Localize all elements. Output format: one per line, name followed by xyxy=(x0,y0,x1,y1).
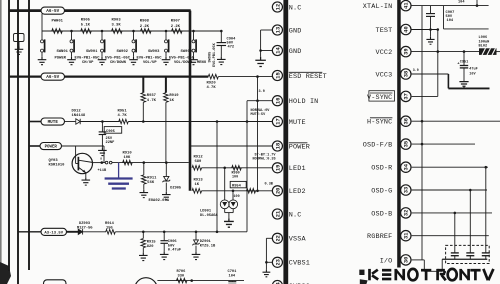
junction key row C904 xyxy=(220,30,223,33)
wire xtal jog down xyxy=(443,6,445,29)
wire C904 drop xyxy=(220,31,222,42)
svg-text:V-SYNC: V-SYNC xyxy=(367,94,392,102)
pin 40 IC902 xyxy=(401,24,411,34)
svg-text:I/O: I/O xyxy=(380,257,393,265)
svg-text:R954: R954 xyxy=(232,185,242,189)
watermark tick mark xyxy=(359,270,364,275)
wire gnd bracket xyxy=(260,30,262,57)
svg-text:KTZ5.1B: KTZ5.1B xyxy=(200,244,216,248)
svg-text:10K: 10K xyxy=(124,156,132,160)
wire C905 lower xyxy=(101,135,103,148)
ground C907 xyxy=(426,37,434,45)
wire vcc3 step xyxy=(447,74,449,88)
capacitor C701 xyxy=(231,280,233,283)
svg-text:N.C: N.C xyxy=(289,4,302,12)
svg-text:31: 31 xyxy=(404,232,410,238)
wire osdb row xyxy=(412,212,492,214)
resistor R908 xyxy=(141,29,152,34)
contact marks xyxy=(105,161,108,164)
pin 39 IC902 xyxy=(401,46,411,56)
svg-text:VCC3: VCC3 xyxy=(375,71,392,79)
ground chassis blue xyxy=(105,179,133,189)
svg-text:40: 40 xyxy=(404,26,410,32)
wire R920 to pin15 xyxy=(218,76,272,78)
junction osdr xyxy=(485,166,488,169)
junction a3 x217 xyxy=(216,231,219,234)
resistor R903 xyxy=(112,29,123,34)
capacitor C-array 2 xyxy=(466,252,474,254)
ground SWN01 xyxy=(38,57,47,65)
resistor R905 xyxy=(81,29,92,34)
junction led1 xyxy=(223,167,226,170)
svg-text:16V: 16V xyxy=(469,73,476,77)
svg-text:PWH01: PWH01 xyxy=(52,19,64,23)
label R954 box xyxy=(230,181,246,187)
node A6-5V oval xyxy=(41,7,65,14)
junction xtal xyxy=(476,4,479,7)
junction bus V3 xyxy=(28,9,31,12)
wire hold-in row xyxy=(247,100,272,102)
svg-text:21: 21 xyxy=(275,211,281,217)
svg-text:LD901: LD901 xyxy=(200,210,212,214)
wire hold-in corner vertical x247 xyxy=(246,101,248,232)
wire cap bus xyxy=(442,258,487,260)
wire R911 lower xyxy=(143,184,145,190)
svg-text:LED1: LED1 xyxy=(289,165,306,173)
wire blue gnd stub xyxy=(118,163,120,178)
svg-text:SW901: SW901 xyxy=(86,50,98,54)
svg-text:34: 34 xyxy=(404,163,410,170)
svg-text:39: 39 xyxy=(404,48,410,54)
wire bottom row xyxy=(157,280,244,282)
wire DZ905 drop xyxy=(165,163,167,177)
wire mute to pin17 xyxy=(128,121,272,123)
svg-text:OSD-R: OSD-R xyxy=(371,165,392,173)
svg-text:36: 36 xyxy=(404,118,410,124)
pin 30 IC902 xyxy=(401,255,411,265)
svg-text:EVG-PB1-05C: EVG-PB1-05C xyxy=(137,56,163,60)
svg-text:3.0: 3.0 xyxy=(413,68,419,72)
wire io row xyxy=(412,259,425,261)
svg-text:N.C: N.C xyxy=(289,211,302,219)
svg-text:1K: 1K xyxy=(169,99,174,103)
capacitor C907 xyxy=(426,13,435,15)
wire R915 drop xyxy=(142,232,144,239)
svg-text:M127-5G: M127-5G xyxy=(77,226,93,230)
junction key row SW905 xyxy=(192,30,195,33)
svg-text:33: 33 xyxy=(404,187,410,193)
svg-text:2.2K: 2.2K xyxy=(140,25,150,29)
label V-SYNC box xyxy=(369,91,395,101)
wire C906 lower xyxy=(163,244,165,252)
ground vssa xyxy=(263,270,271,277)
pin 34 IC902 xyxy=(401,162,411,172)
resistor R950 xyxy=(232,166,241,171)
capacitor C-array 3 xyxy=(482,252,490,254)
transistor QT01 body xyxy=(135,278,158,284)
svg-text:5.1K: 5.1K xyxy=(81,24,91,28)
resistor R913 xyxy=(192,189,201,194)
wire xtal row xyxy=(411,5,489,7)
wire bus V1 x=9 xyxy=(8,0,10,271)
connector P901 box xyxy=(14,34,25,42)
svg-text:0.3B: 0.3B xyxy=(265,182,274,186)
wire pin14 stub xyxy=(261,50,273,52)
wire a3 mid xyxy=(83,231,106,233)
wire c951 lower xyxy=(463,68,465,81)
junction hold-in bracket xyxy=(256,99,259,102)
wire c951 drop xyxy=(463,52,465,66)
svg-text:R920: R920 xyxy=(207,81,217,85)
svg-text:38: 38 xyxy=(404,71,410,77)
svg-text:A6-5V: A6-5V xyxy=(46,75,59,80)
svg-text:3.3K: 3.3K xyxy=(112,24,122,28)
IC902 left edge bar xyxy=(397,0,401,268)
wire DZ901 drop xyxy=(195,232,197,240)
wire cvbs1 stub xyxy=(266,261,272,263)
svg-text:150: 150 xyxy=(106,226,113,230)
wire bus2 main xyxy=(65,75,209,77)
svg-text:47uF: 47uF xyxy=(469,67,477,71)
svg-text:1N4148: 1N4148 xyxy=(72,114,86,118)
wire cap col osdr xyxy=(485,167,487,252)
pin 12 IC901 xyxy=(272,2,282,12)
svg-text:SW903: SW903 xyxy=(148,50,160,54)
resistor R937 xyxy=(141,93,146,103)
svg-text:13: 13 xyxy=(275,27,281,33)
svg-text:3.0: 3.0 xyxy=(259,90,265,94)
wire R915 lower xyxy=(142,248,144,253)
wire osdg row xyxy=(412,189,487,191)
ground connector xyxy=(15,47,24,55)
svg-text:EVG-PB1-05C: EVG-PB1-05C xyxy=(75,56,101,60)
svg-text:R937: R937 xyxy=(147,94,157,98)
ground R915 xyxy=(139,253,148,261)
wire cap col osdb xyxy=(454,213,456,253)
inductor L906 xyxy=(479,48,497,55)
ground LD901 xyxy=(224,218,234,227)
wire pin13 stub xyxy=(261,29,273,31)
pin 41 IC902 xyxy=(401,0,411,10)
svg-text:41: 41 xyxy=(404,2,410,8)
wire vssa stub xyxy=(266,237,272,239)
svg-text:POWER: POWER xyxy=(289,143,310,151)
svg-text:22: 22 xyxy=(275,235,281,241)
junction led2 xyxy=(232,190,235,193)
wire test drop xyxy=(437,30,439,97)
wire collector row a xyxy=(92,162,105,164)
svg-text:R907: R907 xyxy=(171,19,181,23)
svg-text:100: 100 xyxy=(232,176,238,180)
resistor R910 xyxy=(123,160,132,165)
pin 18 IC901 xyxy=(272,141,282,151)
svg-text:R905: R905 xyxy=(81,18,91,22)
svg-text:KSR1010: KSR1010 xyxy=(49,163,66,167)
wire A6-5V bus left segment xyxy=(9,9,42,12)
wire DZ901 lower xyxy=(195,246,197,252)
svg-text:DZ905: DZ905 xyxy=(170,186,181,190)
wire R911 drop xyxy=(143,163,145,175)
junction gnd bracket xyxy=(259,49,262,52)
ground R911 xyxy=(140,190,149,198)
svg-text:8: 8 xyxy=(100,158,102,161)
wire io step xyxy=(423,260,425,271)
svg-text:D912: D912 xyxy=(72,110,82,114)
svg-text:NORMAL:0.3S: NORMAL:0.3S xyxy=(253,158,276,162)
resistor R919 xyxy=(164,93,169,103)
pin 33 IC902 xyxy=(401,185,411,195)
wire a3 row xyxy=(115,231,247,233)
svg-text:MUTE:5V: MUTE:5V xyxy=(251,113,267,117)
wire vsync row xyxy=(412,95,438,97)
node MUTE oval xyxy=(41,118,65,125)
pin 37 IC902 xyxy=(401,91,411,101)
wire C904 lower xyxy=(220,46,222,57)
wire node drop x257.5 xyxy=(257,77,259,191)
svg-text:R911: R911 xyxy=(147,177,157,181)
watermark KENOTRONTV xyxy=(368,269,371,280)
pin 16 IC901 xyxy=(272,96,282,106)
wire led2 row xyxy=(202,190,273,192)
svg-text:LED2: LED2 xyxy=(289,188,306,196)
junction led2 x257 xyxy=(256,190,259,193)
svg-text:CH/UP: CH/UP xyxy=(82,60,94,65)
svg-text:680: 680 xyxy=(195,160,203,164)
svg-text:H-SYNC: H-SYNC xyxy=(367,119,392,127)
svg-text:+11B: +11B xyxy=(98,169,107,173)
LED LD901 xyxy=(220,200,229,209)
wire a6-5V bus2 left xyxy=(9,75,42,77)
svg-text:330: 330 xyxy=(178,274,185,278)
wire osdfb row xyxy=(412,143,475,145)
junction mute R937 xyxy=(142,120,145,123)
wire cap stubs xyxy=(454,256,456,260)
resistor R954 xyxy=(247,189,256,194)
svg-text:16: 16 xyxy=(275,97,281,103)
svg-text:23: 23 xyxy=(275,259,281,265)
wire led join xyxy=(224,209,226,213)
junction bus V2 xyxy=(17,9,20,12)
junction test vcc2 xyxy=(437,50,440,53)
junction mute x217 xyxy=(216,120,219,123)
svg-text:POWER: POWER xyxy=(55,56,67,60)
node bottom oval partial xyxy=(44,280,67,284)
wire xtal stub up xyxy=(476,0,478,6)
junction key row SW901 xyxy=(70,30,73,33)
svg-text:VOL/DOWN: VOL/DOWN xyxy=(174,60,193,65)
resistor R920 xyxy=(208,74,218,79)
svg-text:12: 12 xyxy=(275,4,281,10)
svg-text:4.7K: 4.7K xyxy=(147,99,157,103)
dashed box C-array xyxy=(446,245,490,263)
pin 15 IC901 xyxy=(272,70,282,80)
svg-text:ESD RESET: ESD RESET xyxy=(289,73,327,81)
svg-text:EVG-PB1-05K: EVG-PB1-05K xyxy=(213,42,217,67)
svg-text:1K: 1K xyxy=(195,183,200,187)
resistor R911 xyxy=(142,175,147,184)
svg-text:GND: GND xyxy=(289,48,302,56)
zener DZ901 xyxy=(194,240,199,244)
wire DZ905 lower xyxy=(165,183,167,192)
wire R937 col lower xyxy=(142,102,144,121)
svg-text:R912: R912 xyxy=(194,155,204,159)
wire led2 drop xyxy=(232,191,234,200)
junction key row SW902 xyxy=(101,30,104,33)
svg-text:R903: R903 xyxy=(112,18,122,22)
transistor QY03 xyxy=(72,153,92,173)
ground DZ901 xyxy=(192,252,201,260)
svg-text:SWN01: SWN01 xyxy=(57,50,69,54)
svg-text:R919: R919 xyxy=(169,94,179,98)
junction key row SW904 xyxy=(165,30,168,33)
junction DZ905 xyxy=(165,161,168,164)
svg-text:EGA02-05A: EGA02-05A xyxy=(149,199,170,203)
resistor R907 xyxy=(172,29,183,34)
wire cap col osdg xyxy=(469,190,471,253)
wire L906 out xyxy=(497,51,500,53)
svg-text:104: 104 xyxy=(229,274,236,278)
pin 36 IC902 xyxy=(401,116,411,126)
wire hsync row xyxy=(412,120,500,122)
ground IC gnd pins xyxy=(255,57,266,67)
pin 19 IC901 xyxy=(272,163,282,173)
wire c907 col upper xyxy=(430,6,432,14)
wire thick bus drop x=190 xyxy=(189,11,192,191)
resistor R706 xyxy=(176,278,187,283)
node POWER oval xyxy=(40,143,62,150)
capacitor C904 xyxy=(217,42,227,44)
junction hsync xyxy=(421,120,424,123)
svg-text:CH/DOWN: CH/DOWN xyxy=(110,60,127,65)
junction c907 test xyxy=(429,28,432,31)
svg-text:22NF: 22NF xyxy=(106,141,115,145)
wire bus V2 x=18 xyxy=(17,0,19,284)
svg-text:VSSA: VSSA xyxy=(289,236,307,244)
wire vssa bracket xyxy=(265,238,267,269)
svg-text:A6-5V: A6-5V xyxy=(46,9,59,14)
wire a3 stub xyxy=(18,231,42,233)
wire collector row b xyxy=(112,162,189,164)
ground C904 xyxy=(217,57,226,65)
pin 13 IC901 xyxy=(272,25,282,35)
wire c907 col mid xyxy=(430,17,432,37)
svg-text:4.7K: 4.7K xyxy=(118,114,128,118)
pin 20 IC901 xyxy=(272,186,282,196)
scan blob bottom-left corner xyxy=(0,262,11,284)
wire R937 col upper xyxy=(142,77,144,93)
pin 38 IC902 xyxy=(401,69,411,79)
wire led1 row xyxy=(202,167,273,169)
junction a3 C906 xyxy=(163,231,166,234)
svg-text:18: 18 xyxy=(275,143,281,149)
wire connector stub xyxy=(18,42,20,47)
resistor R951 xyxy=(119,119,129,124)
svg-text:100: 100 xyxy=(234,195,240,199)
ground SW902 xyxy=(98,57,107,65)
ground QY03 emitter xyxy=(82,177,91,185)
wire mid drop x422 xyxy=(421,6,423,260)
switch SW902 xyxy=(101,40,104,43)
watermark corner blob xyxy=(360,279,368,284)
svg-text:104: 104 xyxy=(458,1,465,5)
svg-text:104: 104 xyxy=(447,19,454,23)
svg-text:SW902: SW902 xyxy=(117,50,129,54)
svg-text:R910: R910 xyxy=(123,152,133,156)
svg-text:17: 17 xyxy=(275,118,281,124)
svg-text:XTAL-IN: XTAL-IN xyxy=(363,3,393,11)
svg-text:TEST: TEST xyxy=(375,27,392,35)
svg-text:VCC2: VCC2 xyxy=(375,49,392,57)
junction osdfb xyxy=(421,143,424,146)
wire C905 drop xyxy=(101,122,103,132)
ground C906 xyxy=(160,252,169,260)
node A3-13.5V oval xyxy=(41,228,67,235)
wire power drop collector xyxy=(103,146,105,163)
pin 31 IC902 xyxy=(401,231,411,241)
junction cvbs1 xyxy=(265,261,268,264)
wire emitter drop xyxy=(85,173,87,177)
junction a3 R915 xyxy=(142,231,145,234)
svg-text:BL02: BL02 xyxy=(479,45,488,49)
svg-text:OSD-F/B: OSD-F/B xyxy=(363,142,393,150)
svg-text:56K: 56K xyxy=(147,181,155,185)
capacitor C-array 1 xyxy=(451,252,459,254)
ground SW901 xyxy=(67,57,76,65)
wire x217 drop xyxy=(216,122,218,232)
switch SW904 xyxy=(165,40,168,43)
junction a3 DZ901 xyxy=(195,231,198,234)
svg-text:820: 820 xyxy=(147,245,154,249)
svg-text:VOL/UP: VOL/UP xyxy=(143,60,157,65)
wire led1 drop xyxy=(224,168,226,200)
junction mute x247 xyxy=(246,120,249,123)
wire xtal jog row xyxy=(444,28,489,30)
svg-text:R913: R913 xyxy=(194,178,204,182)
resistor R912 xyxy=(192,166,201,171)
switch SWN01 xyxy=(41,40,44,43)
pin 32 IC902 xyxy=(401,208,411,218)
pin 22 IC901 xyxy=(272,233,282,243)
svg-text:MUTE: MUTE xyxy=(48,120,59,125)
label C905 box xyxy=(104,127,122,134)
svg-text:20: 20 xyxy=(275,188,281,194)
diode D903 xyxy=(78,229,82,235)
wire mute to diode xyxy=(65,121,76,123)
junction c951 xyxy=(463,50,466,53)
switch SW903 xyxy=(132,40,135,43)
svg-text:HOLD IN: HOLD IN xyxy=(289,98,319,106)
pin 14 IC901 xyxy=(272,45,282,55)
svg-text:37: 37 xyxy=(404,93,410,99)
wire oval drop to key row xyxy=(41,14,43,31)
wire power to base xyxy=(62,145,105,147)
svg-text:MUTE: MUTE xyxy=(289,119,306,127)
wire A6-5V bus main xyxy=(65,9,191,12)
switch SW905 xyxy=(192,40,195,43)
wire power stub xyxy=(29,145,41,147)
svg-text:R951: R951 xyxy=(118,110,128,114)
svg-text:EVG-PB1-05C: EVG-PB1-05C xyxy=(105,56,131,60)
wire test row xyxy=(411,29,438,31)
svg-text:MENU: MENU xyxy=(197,61,207,65)
capacitor C951 xyxy=(460,65,468,67)
diode D912 xyxy=(76,119,80,125)
pin 23 IC901 xyxy=(272,257,282,267)
wire R919 col lower xyxy=(165,102,167,162)
svg-text:19: 19 xyxy=(275,165,281,171)
wire mute mid xyxy=(80,121,119,123)
svg-text:POWER: POWER xyxy=(45,146,58,150)
